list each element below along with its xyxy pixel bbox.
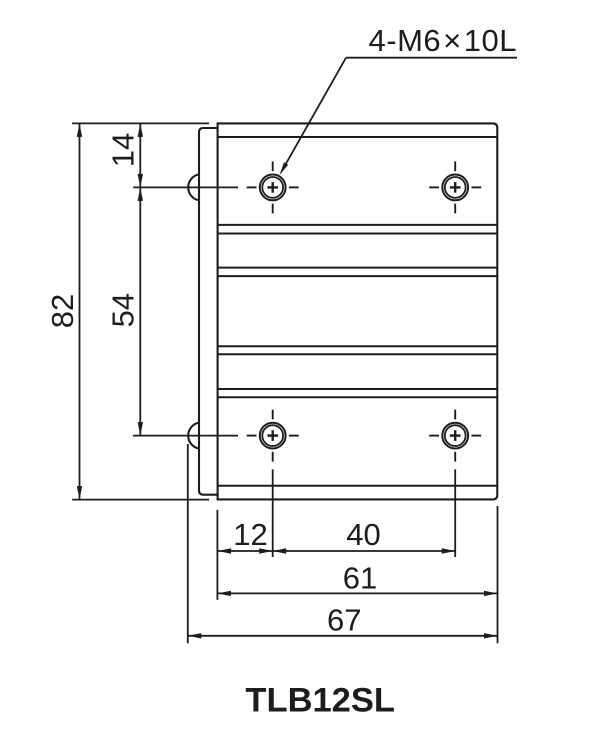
lower lug bulge arc <box>188 423 199 449</box>
dimension 14 line <box>139 123 141 187</box>
label 82 <box>45 294 80 328</box>
svg-text:67: 67 <box>327 603 361 638</box>
label 14 <box>105 133 140 167</box>
svg-text:82: 82 <box>45 294 80 328</box>
hole H2 top-right circles <box>442 175 468 201</box>
hole H3 centerlines <box>247 410 299 462</box>
upper lug bulge arc <box>188 174 199 200</box>
hole H4 centerlines <box>429 410 481 462</box>
svg-text:4-M6×10L: 4-M6×10L <box>369 23 517 58</box>
svg-text:14: 14 <box>105 133 140 167</box>
extension line bottom for 82 <box>72 499 209 501</box>
hole H1 centerlines <box>247 161 299 213</box>
left flange plate <box>199 128 219 495</box>
dimension 12/40 line <box>218 550 456 552</box>
svg-text:61: 61 <box>343 561 377 596</box>
hole H4 bottom-right circles <box>442 423 468 449</box>
svg-text:54: 54 <box>105 293 140 327</box>
extension line hole row 2 <box>133 435 238 437</box>
svg-text:40: 40 <box>346 517 380 552</box>
main body outline <box>218 123 498 499</box>
svg-text:12: 12 <box>233 517 267 552</box>
label 54 <box>105 293 140 327</box>
hole H3 bottom-left circles <box>260 423 286 449</box>
extension line below left body edge <box>216 510 218 600</box>
extension line below right body edge <box>497 506 499 643</box>
extension line below hole H4 <box>454 469 456 557</box>
leader line for thread callout <box>346 57 517 59</box>
extension line hole row 1 <box>133 186 238 188</box>
extension line below lug left <box>187 444 189 643</box>
dimension 82 line <box>79 123 81 499</box>
dimension 54 line <box>139 187 141 435</box>
dimension 61 line <box>217 592 497 594</box>
leader arrowhead <box>279 162 288 175</box>
hole H2 centerlines <box>429 161 481 213</box>
extension line top for 82 <box>72 122 209 124</box>
hole H1 top-left circles <box>260 175 286 201</box>
body groove lines <box>218 137 498 486</box>
extension line below hole H3 <box>272 469 274 557</box>
dimension 67 line <box>188 635 498 637</box>
svg-text:TLB12SL: TLB12SL <box>245 682 395 720</box>
